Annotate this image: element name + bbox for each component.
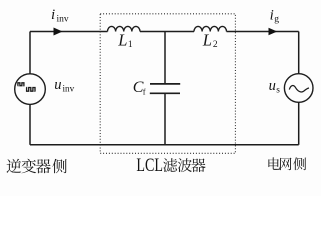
wire top-left horizontal (inverter to L1) xyxy=(30,31,108,33)
sine wave (inside grid source) xyxy=(289,86,309,92)
svg-text:i: i xyxy=(270,8,274,24)
pulse waveform glyph upper (inside inverter source) xyxy=(18,83,25,86)
wire top-right horizontal (L2 to grid) xyxy=(227,31,299,33)
wire left vertical upper xyxy=(29,32,31,74)
wire bottom horizontal xyxy=(30,144,299,146)
label i_inv xyxy=(51,7,69,24)
label u_inv xyxy=(54,77,74,94)
svg-text:LCL: LCL xyxy=(136,156,163,176)
capacitor Cf top plate xyxy=(150,83,180,85)
wire capacitor branch lower xyxy=(164,94,166,145)
wire right vertical lower xyxy=(298,102,300,145)
inductor L2 xyxy=(194,26,226,31)
svg-text:u: u xyxy=(54,77,61,93)
AC source U_inv (inverter, circle) xyxy=(15,74,46,105)
label L1 xyxy=(117,31,133,51)
AC source u_s (grid, circle) xyxy=(284,74,313,103)
inductor L1 xyxy=(108,26,140,31)
label 变 (inverter-side caption char 2) xyxy=(21,159,36,174)
label 侧 (grid-side caption char 3) xyxy=(293,157,306,170)
svg-text:s: s xyxy=(276,85,280,95)
svg-text:g: g xyxy=(274,15,279,25)
label 逆 (inverter-side caption char 1) xyxy=(7,159,22,173)
svg-text:L: L xyxy=(117,31,127,50)
arrowhead i_inv xyxy=(54,28,63,36)
capacitor Cf bottom plate xyxy=(150,92,180,94)
svg-text:f: f xyxy=(143,87,146,97)
label 网 (grid-side caption char 2) xyxy=(280,158,292,171)
label 侧 (inverter-side caption char 4) xyxy=(52,159,66,173)
arrowhead i_g xyxy=(269,28,278,35)
svg-text:inv: inv xyxy=(63,84,75,94)
svg-text:i: i xyxy=(51,7,55,23)
label 电 (grid-side caption char 1) xyxy=(268,157,280,169)
wire top-middle horizontal (L1 to L2) xyxy=(140,31,194,33)
label i_g xyxy=(270,8,280,25)
label 波 (filter caption char 2) xyxy=(178,158,192,172)
dashed box LCL filter boundary xyxy=(100,14,235,154)
wire left vertical lower xyxy=(29,105,31,145)
svg-text:1: 1 xyxy=(128,40,133,50)
svg-text:2: 2 xyxy=(213,40,218,50)
label 器 (filter caption char 3) xyxy=(191,158,205,172)
svg-text:inv: inv xyxy=(57,14,69,24)
pulse waveform glyph lower (inside inverter source) xyxy=(26,88,35,92)
svg-text:L: L xyxy=(202,30,212,49)
wire right vertical upper xyxy=(298,32,300,74)
label L2 xyxy=(202,30,218,50)
label 滤 (filter caption char 1) xyxy=(163,158,177,172)
svg-text:u: u xyxy=(269,78,276,94)
label Cf xyxy=(133,79,146,97)
label u_s xyxy=(269,78,281,95)
wire capacitor branch upper xyxy=(164,32,166,84)
label 器 (inverter-side caption char 3) xyxy=(36,159,51,173)
